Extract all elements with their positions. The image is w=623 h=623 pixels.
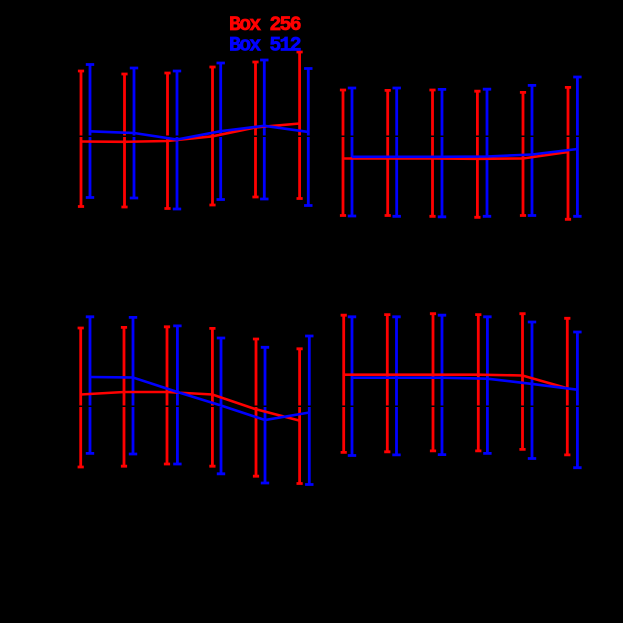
bottom-left panel Box256 error bar 1 <box>78 328 84 467</box>
bottom-left panel Box256 error bar 4 <box>209 328 215 466</box>
bottom-right panel Box512 error bar 5 <box>528 322 536 459</box>
top-right-panel black reference line <box>338 135 585 137</box>
top-left panel Box256 error bar 2 <box>121 74 127 207</box>
top-left panel Box512 error bar 3 <box>173 71 181 209</box>
bottom-right panel Box256 error bar 6 <box>564 318 570 455</box>
bottom-left panel Box256 error bar 2 <box>121 327 127 466</box>
bottom-right panel Box512 error bar 6 <box>573 332 581 468</box>
bottom-left panel Box256 mean line <box>81 392 300 421</box>
bottom-left panel Box512 mean line <box>90 377 309 420</box>
bottom-right-panel black reference line <box>338 405 585 407</box>
bottom-left panel Box512 error bar 4 <box>217 338 225 474</box>
top-right panel Box256 error bar 1 <box>340 90 346 216</box>
bottom-right panel Box512 error bar 2 <box>392 317 400 455</box>
top-left panel Box512 error bar 1 <box>86 65 94 198</box>
bottom-right panel Box256 error bar 2 <box>384 315 390 452</box>
top-left panel Box256 error bar 1 <box>78 71 84 207</box>
bottom-left panel Box256 error bar 5 <box>253 339 259 476</box>
top-left panel Box512 error bar 5 <box>260 60 268 199</box>
bottom-left panel Box512 error bar 3 <box>173 326 181 464</box>
top-left panel Box256 error bar 4 <box>209 67 215 205</box>
top-left panel Box512 error bar 6 <box>304 69 312 206</box>
bottom-left panel Box512 error bar 6 <box>305 336 313 485</box>
top-right panel Box512 error bar 2 <box>393 88 401 216</box>
bottom-right panel Box512 error bar 3 <box>438 315 446 454</box>
top-right panel Box256 error bar 6 <box>565 87 571 219</box>
bottom-right panel Box256 error bar 5 <box>519 314 525 450</box>
top-left panel Box512 error bar 4 <box>217 63 225 200</box>
bottom-left panel Box512 error bar 2 <box>129 317 137 454</box>
top-left panel Box512 error bar 2 <box>130 68 138 198</box>
top-right panel Box256 error bar 3 <box>429 90 435 216</box>
top-right panel Box512 mean line <box>352 149 577 157</box>
bottom-right panel Box256 error bar 4 <box>475 315 481 451</box>
bottom-left panel Box256 error bar 3 <box>164 327 170 464</box>
top-left panel Box256 error bar 3 <box>164 73 170 209</box>
bottom-left panel Box512 error bar 1 <box>86 317 94 454</box>
top-right panel Box256 error bar 4 <box>474 91 480 217</box>
top-right panel Box512 error bar 5 <box>528 85 536 215</box>
top-right panel Box512 error bar 3 <box>438 89 446 216</box>
top-right panel Box512 error bar 4 <box>483 89 491 216</box>
bottom-right panel Box512 error bar 4 <box>483 317 491 454</box>
top-left panel Box512 mean line <box>90 126 308 140</box>
top-left panel Box256 mean line <box>81 124 300 142</box>
top-right panel Box256 error bar 5 <box>520 92 526 215</box>
top-right panel Box256 error bar 2 <box>385 90 391 215</box>
top-left-panel black reference line <box>75 135 315 137</box>
bottom-right panel Box512 mean line <box>352 378 577 390</box>
bottom-right panel Box256 error bar 1 <box>341 315 347 452</box>
bottom-left-panel black reference line <box>75 405 315 407</box>
bottom-left panel Box256 error bar 6 <box>297 349 303 484</box>
bottom-right panel Box256 mean line <box>344 375 568 389</box>
top-right panel Box256 mean line <box>343 152 568 159</box>
bottom-right panel Box512 error bar 1 <box>348 317 356 456</box>
top-right panel Box512 error bar 1 <box>348 88 356 216</box>
top-right panel Box512 error bar 6 <box>573 77 581 216</box>
bottom-left panel Box512 error bar 5 <box>261 347 269 483</box>
top-left panel Box256 error bar 6 <box>297 52 303 199</box>
bottom-right panel Box256 error bar 3 <box>430 314 436 451</box>
top-left panel Box256 error bar 5 <box>252 62 258 197</box>
svg-text:Box 512: Box 512 <box>229 35 301 58</box>
